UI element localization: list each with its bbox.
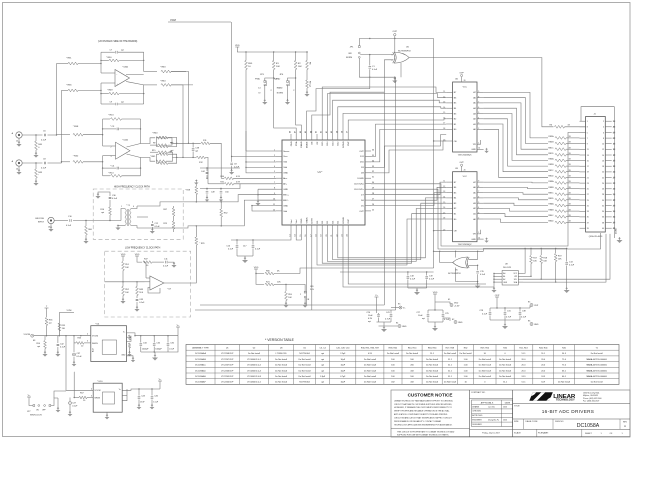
- svg-text:VOCM: VOCM: [92, 336, 98, 338]
- svg-text:2: 2: [300, 294, 301, 296]
- capacitor C8b: [22, 159, 61, 170]
- svg-text:LOW FREQUENCY CLOCK PATH: LOW FREQUENCY CLOCK PATH: [125, 247, 161, 250]
- wire J1 pin1 loop: [581, 107, 614, 122]
- svg-text:NC7SV86P5X: NC7SV86P5X: [398, 50, 411, 52]
- svg-text:10uF: 10uF: [418, 315, 423, 317]
- svg-text:SUPPLIED FOR USE WITH LINEAR T: SUPPLIED FOR USE WITH LINEAR TECHNOLOGY …: [397, 434, 449, 437]
- svg-text:12: 12: [443, 96, 445, 98]
- turret VDD: [435, 299, 460, 308]
- svg-text:RN4A: RN4A: [548, 203, 554, 206]
- wire U2A in1: [103, 145, 116, 147]
- svg-text:13: 13: [443, 191, 445, 193]
- svg-text:5: 5: [587, 132, 588, 134]
- ground J2: [16, 138, 21, 146]
- svg-text:1: 1: [478, 232, 479, 234]
- svg-text:DGND: DGND: [357, 178, 364, 180]
- svg-text:LTC2204CUP: LTC2204CUP: [221, 382, 234, 384]
- wire D9 stub: [371, 135, 446, 168]
- wire U2A out2: [127, 154, 141, 158]
- wire gate to U1 OE: [312, 92, 385, 134]
- power VDD: [235, 45, 240, 50]
- svg-text:V+: V+: [119, 389, 121, 391]
- resistor R19: [554, 248, 562, 282]
- IC U4 body: [91, 324, 127, 362]
- resistor R53: [74, 338, 85, 348]
- svg-text:6: 6: [478, 107, 479, 109]
- svg-text:25: 25: [372, 209, 374, 211]
- transformer T1: [115, 205, 134, 230]
- capacitor C12: [137, 217, 160, 234]
- svg-text:LTC6401CLU-8: LTC6401CLU-8: [247, 376, 262, 378]
- svg-text:A2: A2: [503, 278, 505, 281]
- svg-text:28: 28: [602, 194, 604, 196]
- IC U1 body: [282, 140, 365, 225]
- capacitor C47: [68, 398, 78, 417]
- svg-text:RN1D: RN1D: [548, 153, 554, 155]
- svg-text:9: 9: [587, 144, 588, 146]
- svg-text:R8 opt: R8 opt: [309, 81, 312, 87]
- svg-text:R10, R14: R10, R14: [408, 347, 417, 349]
- svg-text:4.7uF: 4.7uF: [444, 319, 450, 321]
- svg-text:R27, R28: R27, R28: [446, 347, 455, 349]
- svg-text:Phone: (408) 432-1900: Phone: (408) 432-1900: [583, 398, 601, 400]
- svg-text:Milpitas, CA 95035: Milpitas, CA 95035: [583, 394, 598, 397]
- svg-text:C3, C4: C3, C4: [319, 347, 326, 349]
- svg-text:* VERSION TABLE: * VERSION TABLE: [265, 338, 295, 342]
- capacitor C17: [243, 240, 261, 256]
- svg-text:15: 15: [587, 160, 589, 162]
- svg-text:11: 11: [443, 91, 445, 93]
- svg-text:A1: A1: [503, 275, 505, 278]
- svg-text:0.1uF: 0.1uF: [163, 266, 169, 268]
- connector J1 pins: [580, 120, 616, 230]
- wire J2 to R58: [56, 64, 57, 136]
- svg-text:OVP: OVP: [359, 211, 364, 213]
- turret T2: [45, 306, 49, 311]
- svg-text:CLKOUTp: CLKOUTp: [354, 184, 365, 186]
- svg-text:TECHNOLOGY: TECHNOLOGY: [556, 398, 575, 402]
- wire r66 right: [300, 268, 434, 274]
- resistor R17: [530, 248, 538, 276]
- svg-text:opt: opt: [195, 150, 198, 153]
- wire vocm rail: [34, 335, 91, 336]
- svg-text:Do Not Install: Do Not Install: [499, 358, 512, 361]
- wire cap rail c4950: [200, 184, 240, 189]
- svg-text:LTC6400CLU-1: LTC6400CLU-1: [247, 359, 262, 361]
- svg-text:VDD: VDD: [121, 254, 126, 256]
- wire JP4 to U1 RAND: [296, 78, 302, 134]
- svg-text:R38, R42: R38, R42: [389, 347, 398, 349]
- svg-text:Do Not Install: Do Not Install: [248, 352, 261, 355]
- wire enc to T1: [96, 220, 121, 221]
- wire U3A in1: [101, 72, 115, 74]
- capacitor C44: [200, 167, 240, 179]
- wire bus U1 to U6: [322, 87, 446, 162]
- wire fb2 left: [100, 83, 101, 104]
- svg-text:0.1uF: 0.1uF: [66, 225, 72, 227]
- svg-text:* R58: * R58: [73, 126, 79, 128]
- capacitor C3: [103, 126, 141, 130]
- svg-text:GND: GND: [534, 324, 539, 326]
- svg-text:GND: GND: [121, 354, 126, 356]
- svg-text:19: 19: [587, 172, 589, 174]
- capacitor C28: [479, 308, 491, 320]
- svg-text:PGA: PGA: [295, 141, 298, 146]
- ground hf: [95, 193, 100, 199]
- svg-text:MABA-007159-000000: MABA-007159-000000: [587, 375, 608, 378]
- capacitor C13: [564, 248, 575, 293]
- IC U6 buffer: [443, 73, 488, 157]
- svg-text:12: 12: [443, 186, 445, 188]
- ground J4: [16, 166, 21, 174]
- capacitor C36: [167, 336, 175, 352]
- svg-text:33: 33: [587, 211, 589, 213]
- resistor R60: [83, 220, 92, 244]
- capacitor C27: [416, 310, 429, 322]
- svg-text:Do Not Install: Do Not Install: [479, 358, 492, 361]
- wire JP1 bottom rail: [359, 77, 395, 78]
- svg-text:0.1uF: 0.1uF: [410, 279, 416, 281]
- svg-text:1.5uF: 1.5uF: [153, 402, 159, 404]
- svg-text:Do Not Install: Do Not Install: [275, 369, 288, 372]
- resistor R59: [283, 284, 292, 308]
- svg-text:Do Not Install: Do Not Install: [479, 375, 492, 378]
- svg-text:18: 18: [602, 166, 604, 168]
- svg-text:* R40: * R40: [152, 133, 158, 135]
- svg-text:OVP: OVP: [495, 295, 500, 297]
- wire VCM vertical: [231, 22, 233, 157]
- svg-text:DATE: DATE: [505, 401, 511, 404]
- svg-text:0.1uF: 0.1uF: [255, 249, 261, 251]
- svg-text:SHDN: SHDN: [92, 343, 98, 345]
- svg-text:NORM: NORM: [346, 57, 352, 59]
- power VDD mid: [254, 267, 259, 272]
- resistor R21: [255, 273, 286, 286]
- svg-text:RN1A: RN1A: [548, 135, 554, 138]
- resistor R64: [144, 81, 193, 87]
- capacitor C8 2.2uF: [229, 156, 240, 175]
- capacitor C10: [54, 216, 96, 227]
- svg-text:E3: E3: [398, 304, 400, 306]
- power VDD lf2: [135, 254, 140, 259]
- wire U5b in2: [469, 265, 479, 266]
- power V+ term: [375, 295, 379, 310]
- power V+ u4: [176, 325, 180, 336]
- svg-text:10pF: 10pF: [341, 370, 346, 372]
- svg-text:LTC2207CUP: LTC2207CUP: [221, 365, 234, 367]
- svg-text:opt: opt: [170, 141, 173, 144]
- svg-text:R11, R13: R11, R13: [519, 347, 528, 349]
- svg-text:Do Not Install: Do Not Install: [426, 381, 439, 384]
- svg-text:31: 31: [372, 177, 374, 179]
- svg-text:U1 *: U1 *: [318, 171, 323, 174]
- resistor R66: [256, 271, 300, 275]
- svg-text:Do Not Install: Do Not Install: [558, 381, 571, 384]
- svg-text:GND: GND: [291, 141, 293, 146]
- power OVP term: [495, 295, 500, 308]
- svg-text:GND: GND: [458, 322, 463, 324]
- svg-text:0.1uF: 0.1uF: [72, 406, 78, 408]
- svg-text:2: 2: [478, 128, 479, 130]
- svg-text:2.2uF: 2.2uF: [234, 167, 240, 169]
- svg-text:10uF: 10uF: [368, 315, 373, 317]
- resistor R55b: [58, 323, 66, 336]
- turret V+: [391, 304, 406, 310]
- svg-text:8: 8: [478, 96, 479, 98]
- svg-text:A0: A0: [503, 272, 505, 275]
- svg-text:10: 10: [478, 148, 480, 150]
- svg-text:24N: 24N: [310, 289, 314, 291]
- svg-text:Do Not Install: Do Not Install: [444, 381, 457, 384]
- svg-text:9: 9: [478, 181, 479, 183]
- IC U1 bottom pins: [290, 217, 351, 237]
- wire U2A out1: [127, 144, 141, 148]
- svg-text:9: 9: [478, 91, 479, 93]
- svg-text:1: 1: [392, 54, 393, 56]
- svg-text:13: 13: [587, 155, 589, 157]
- svg-text:4: 4: [478, 207, 479, 209]
- svg-text:2: 2: [603, 121, 604, 123]
- svg-text:GND: GND: [283, 173, 288, 175]
- svg-text:OVP: OVP: [348, 218, 350, 223]
- svg-text:TECHNOLOGY APPLICATIONS ENGINE: TECHNOLOGY APPLICATIONS ENGINEERING FOR …: [394, 423, 453, 426]
- wire U5b out: [439, 251, 454, 263]
- wire clkout-: [371, 189, 601, 249]
- svg-text:25: 25: [587, 189, 589, 191]
- svg-text:CIRCUIT BOARD LAYOUT MAY SIGNI: CIRCUIT BOARD LAYOUT MAY SIGNIFICANTLY A…: [394, 417, 453, 420]
- svg-text:4: 4: [87, 334, 88, 336]
- resistor R31: [57, 58, 102, 65]
- resistor R16: [100, 207, 111, 221]
- svg-text:0.1uF: 0.1uF: [228, 249, 234, 251]
- resistor R36: [62, 85, 102, 92]
- svg-text:OVP: OVP: [348, 141, 350, 146]
- svg-text:2006: 2006: [503, 420, 507, 422]
- svg-text:THIS CIRCUIT IS PROPRIETARY TO: THIS CIRCUIT IS PROPRIETARY TO LINEAR TE…: [397, 430, 455, 433]
- svg-text:RN2B: RN2B: [548, 164, 554, 166]
- svg-text:ASSEMBLY TYPE: ASSEMBLY TYPE: [192, 346, 209, 349]
- IC U10 body: [93, 381, 122, 412]
- svg-text:0.1uF: 0.1uF: [429, 279, 435, 281]
- power VDD lf1: [121, 254, 126, 259]
- box low freq: [105, 251, 191, 317]
- jumper JP4 RAND: [274, 70, 296, 95]
- svg-text:20: 20: [602, 172, 604, 174]
- wire fb4 left: [102, 156, 103, 176]
- wire T1 sec2: [131, 226, 137, 228]
- svg-text:PGA: PGA: [255, 78, 260, 81]
- turret GND2: [443, 318, 463, 324]
- svg-text:DC1058A-C: DC1058A-C: [195, 364, 206, 367]
- svg-text:HIGH FREQUENCY CLOCK PATH: HIGH FREQUENCY CLOCK PATH: [114, 186, 150, 189]
- svg-text:Fax: (408) 434-0507: Fax: (408) 434-0507: [583, 401, 599, 403]
- svg-text:Do Not Install: Do Not Install: [275, 364, 288, 367]
- svg-text:6: 6: [478, 197, 479, 199]
- svg-text:0.1uF: 0.1uF: [77, 356, 83, 358]
- svg-text:RN3A: RN3A: [548, 180, 554, 183]
- svg-text:17: 17: [443, 212, 445, 214]
- svg-text:DC1058A-F: DC1058A-F: [195, 381, 206, 384]
- svg-text:ENC-: ENC-: [283, 200, 289, 202]
- svg-text:VOCM: VOCM: [94, 390, 100, 392]
- svg-text:RAND: RAND: [300, 141, 303, 148]
- wire rail bottom 1: [200, 304, 384, 306]
- svg-text:15: 15: [443, 202, 445, 204]
- wire dith pin down: [311, 231, 313, 310]
- wire u4 gnd pin: [121, 354, 135, 362]
- ground u4 caps: [141, 336, 178, 361]
- svg-text:Do Not Install: Do Not Install: [499, 375, 512, 378]
- resistor R48b: [33, 163, 42, 186]
- svg-text:4.7uF: 4.7uF: [506, 317, 512, 319]
- wire vdd pins: [245, 131, 276, 173]
- svg-text:0.1uF: 0.1uF: [41, 168, 47, 170]
- svg-text:3: 3: [111, 156, 112, 158]
- svg-text:DGND: DGND: [343, 217, 345, 224]
- IC U1 top pins: [290, 131, 351, 148]
- svg-text:Do Not Install: Do Not Install: [591, 352, 604, 355]
- svg-text:40: 40: [602, 228, 604, 230]
- resistor R67: [163, 206, 175, 216]
- wire J4 vertical: [61, 90, 62, 163]
- svg-text:Do Not Install: Do Not Install: [299, 358, 312, 361]
- wire U5b gnd rail: [456, 268, 479, 283]
- svg-text:OVP: OVP: [359, 151, 364, 153]
- capacitor C18: [407, 272, 416, 288]
- wire OVP rail: [359, 38, 433, 39]
- wire bus U1 to U9: [317, 182, 446, 265]
- resistor R13: [103, 115, 141, 121]
- svg-text:VCM: VCM: [67, 310, 72, 312]
- svg-text:0.1uF: 0.1uF: [60, 347, 66, 349]
- svg-text:1000pF: 1000pF: [142, 349, 149, 351]
- resistor R58: [57, 126, 103, 136]
- wire shdn: [54, 391, 66, 398]
- connector J3 encode: [35, 217, 54, 228]
- svg-text:19: 19: [443, 140, 445, 142]
- IC U1 left pins: [273, 149, 290, 212]
- svg-text:* R28: * R28: [185, 190, 191, 192]
- svg-text:HOWEVER, IT REMAINS THE CUSTOM: HOWEVER, IT REMAINS THE CUSTOMER'S RESPO…: [394, 406, 452, 409]
- svg-text:8: 8: [603, 138, 604, 140]
- wire gate to U1 MODE: [307, 77, 370, 134]
- ground c16: [237, 256, 253, 263]
- resistor R41b 4.99: [208, 181, 276, 185]
- capacitor C38: [192, 143, 200, 158]
- wire bus U6 to RN: [483, 92, 548, 177]
- svg-text:Do Not Install: Do Not Install: [479, 364, 492, 367]
- svg-text:FILENAME:: FILENAME:: [538, 432, 549, 435]
- svg-text:Do Not Install: Do Not Install: [460, 352, 473, 355]
- wire R63 down: [171, 72, 189, 145]
- turret GND1: [379, 323, 408, 329]
- svg-text:E5: E5: [528, 302, 530, 304]
- svg-text:0.1uF: 0.1uF: [480, 274, 486, 276]
- resistor R37 opt: [157, 154, 177, 164]
- svg-text:VCC: VCC: [463, 176, 468, 178]
- wire vocm to u10: [65, 335, 93, 390]
- wire rail bottom 2: [195, 309, 396, 311]
- resistor R15: [150, 149, 174, 158]
- wire eeprom rail top: [483, 248, 567, 252]
- capacitor C16: [226, 240, 238, 256]
- svg-text:7: 7: [587, 138, 588, 140]
- svg-text:ENGINEER: ENGINEER: [472, 420, 482, 422]
- svg-text:0.1uF: 0.1uF: [521, 317, 527, 319]
- ground JP4: [285, 85, 290, 105]
- svg-text:Do Not Install: Do Not Install: [275, 381, 288, 384]
- capacitor C7: [101, 49, 144, 54]
- ground ovp: [490, 320, 520, 329]
- svg-text:4.7uF: 4.7uF: [385, 319, 391, 321]
- wire sda: [523, 234, 606, 283]
- svg-text:TITLE:: TITLE:: [514, 405, 520, 407]
- svg-text:6: 6: [133, 206, 134, 208]
- svg-text:5: 5: [478, 202, 479, 204]
- resistor network RN1-RN4: [548, 135, 579, 224]
- svg-text:LTC2208CUP: LTC2208CUP: [221, 353, 234, 355]
- turret VOCM: [23, 334, 35, 342]
- svg-text:VDD: VDD: [254, 267, 259, 269]
- wire gate vcc pin: [395, 39, 401, 78]
- svg-text:34: 34: [602, 211, 604, 213]
- svg-text:14: 14: [443, 107, 445, 109]
- wire r57 up: [74, 372, 75, 398]
- svg-text:10pF: 10pF: [341, 382, 346, 384]
- capacitor C42: [55, 336, 66, 357]
- ground JP3: [262, 85, 267, 105]
- svg-text:Friday, July 13, 2007: Friday, July 13, 2007: [482, 432, 499, 435]
- svg-text:RN1C: RN1C: [548, 147, 554, 149]
- svg-text:RN2D: RN2D: [548, 176, 554, 178]
- svg-text:* R41: * R41: [150, 156, 156, 158]
- svg-text:RAND: RAND: [274, 78, 281, 81]
- jumper JP6: [286, 284, 314, 307]
- svg-text:opt: opt: [368, 320, 371, 323]
- ground J3: [48, 224, 53, 232]
- svg-text:14: 14: [443, 197, 445, 199]
- svg-text:Do Not Install: Do Not Install: [444, 352, 457, 355]
- svg-text:RN3D: RN3D: [548, 198, 554, 200]
- svg-text:* R64: * R64: [160, 81, 166, 83]
- svg-text:35: 35: [587, 217, 589, 219]
- wire wp: [523, 276, 532, 277]
- svg-text:11: 11: [443, 181, 445, 183]
- svg-text:LTC2205CUP: LTC2205CUP: [221, 376, 234, 378]
- svg-text:CUSTOMER NOTICE: CUSTOMER NOTICE: [408, 393, 453, 398]
- wire fb1 right: [143, 52, 144, 71]
- wire J1 dgnd rail: [614, 121, 622, 243]
- svg-text:* U10: * U10: [97, 381, 103, 383]
- svg-text:Do Not Install: Do Not Install: [299, 369, 312, 372]
- svg-text:6.3V: 6.3V: [368, 318, 373, 320]
- svg-text:C45, C49, C50: C45, C49, C50: [336, 347, 350, 349]
- svg-text:MODE: MODE: [306, 141, 308, 148]
- resistor R40b 4.99: [220, 176, 276, 180]
- svg-text:2: 2: [111, 146, 112, 148]
- capacitor C38: [519, 308, 527, 320]
- wire u8 vcc: [523, 248, 525, 273]
- wire D8 stub: [371, 141, 446, 173]
- svg-text:Do Not Install: Do Not Install: [275, 375, 288, 378]
- wire VDD rail: [237, 50, 307, 53]
- svg-text:RN3B: RN3B: [548, 187, 554, 189]
- capacitor C48: [134, 299, 145, 312]
- svg-text:14: 14: [602, 155, 604, 157]
- svg-text:June 30s: June 30s: [488, 406, 495, 408]
- svg-text:A: A: [624, 424, 626, 428]
- svg-text:10: 10: [602, 144, 604, 146]
